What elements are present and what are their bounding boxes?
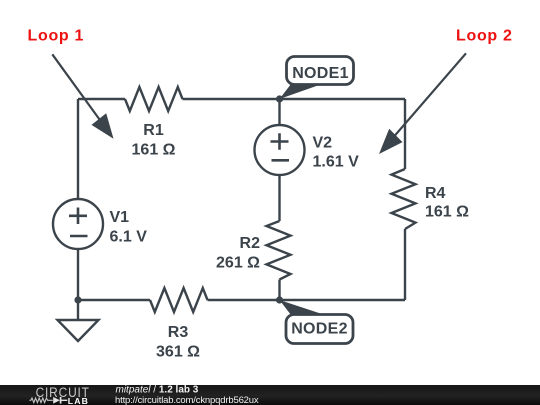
svg-text:R3: R3	[168, 324, 189, 341]
junction node C (bottom middle)	[276, 296, 283, 303]
svg-text:http://circuitlab.com/cknpqdrb: http://circuitlab.com/cknpqdrb562ux	[115, 395, 259, 405]
resistor R2	[267, 221, 291, 280]
voltage source V2	[255, 125, 305, 175]
ground	[77, 300, 79, 320]
arrow loop 2	[379, 53, 466, 154]
svg-text:LAB: LAB	[68, 396, 89, 405]
label V2 value	[313, 135, 360, 171]
svg-text:261 Ω: 261 Ω	[216, 255, 260, 272]
svg-text:161 Ω: 161 Ω	[425, 204, 469, 221]
resistor R3	[150, 288, 208, 312]
wire top (node1 net)	[78, 98, 125, 100]
V2 plus sign	[271, 133, 289, 150]
footer logo resistor-diode glyph	[30, 397, 68, 404]
wire left vertical	[77, 99, 79, 199]
svg-text:161 Ω: 161 Ω	[132, 142, 176, 159]
voltage source V1	[53, 199, 103, 249]
wire middle vertical	[278, 99, 280, 125]
svg-text:1.61 V: 1.61 V	[313, 154, 360, 171]
junction node B (bottom left)	[74, 296, 81, 303]
resistor R1	[125, 87, 183, 111]
V1 plus sign	[69, 208, 87, 225]
label V1 value	[110, 209, 148, 246]
footer bar	[0, 385, 540, 405]
svg-text:R2: R2	[240, 235, 261, 252]
V1 minus sign	[70, 235, 88, 238]
wire right vertical	[404, 99, 406, 169]
svg-text:V1: V1	[110, 209, 130, 226]
svg-text:6.1 V: 6.1 V	[110, 229, 148, 246]
arrow loop 1	[52, 54, 113, 138]
V2 minus sign	[272, 159, 290, 162]
label R4 value	[425, 185, 469, 221]
junction node A (top middle)	[276, 95, 283, 102]
svg-text:R4: R4	[425, 185, 446, 202]
resistor R4	[392, 169, 416, 229]
node callout NODE1	[280, 57, 354, 100]
svg-text:NODE1: NODE1	[292, 65, 349, 82]
wire bottom (node2 net)	[78, 299, 150, 301]
svg-text:Loop 2: Loop 2	[456, 28, 513, 45]
svg-text:361 Ω: 361 Ω	[156, 344, 200, 361]
node callout NODE2	[280, 300, 354, 344]
label R1 value	[132, 122, 176, 159]
svg-text:NODE2: NODE2	[291, 321, 348, 338]
svg-text:mitpatel / 1.2 lab 3: mitpatel / 1.2 lab 3	[116, 385, 199, 396]
label R2 value	[216, 235, 260, 272]
svg-text:V2: V2	[313, 135, 333, 152]
label R3 value	[156, 324, 200, 361]
svg-text:R1: R1	[143, 122, 164, 139]
svg-text:Loop 1: Loop 1	[28, 28, 85, 45]
